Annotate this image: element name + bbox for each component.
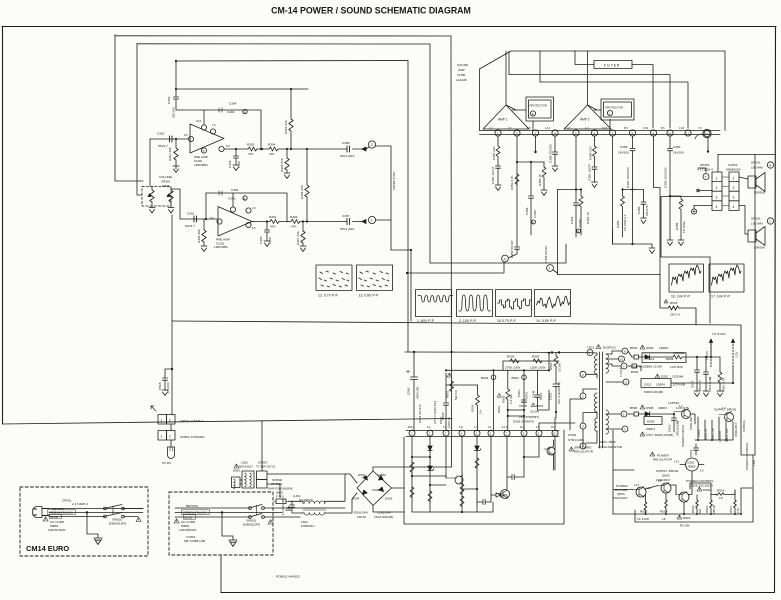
svg-text:14.3: 14.3 — [502, 426, 507, 429]
resistor R309 — [202, 219, 206, 246]
wire brown — [49, 508, 143, 510]
svg-text:1.2: 1.2 — [489, 126, 493, 130]
svg-text:4: 4 — [582, 425, 584, 429]
svg-text:25V100: 25V100 — [172, 107, 176, 118]
transistor Q509 — [547, 447, 555, 455]
capacitor C356 — [633, 190, 647, 219]
wire: loop right drop x741 — [740, 325, 742, 440]
svg-text:C: C — [769, 220, 772, 224]
svg-text:1201N71001: 1201N71001 — [48, 528, 66, 532]
svg-text:C51B: C51B — [519, 404, 527, 408]
svg-text:270P: 270P — [268, 237, 272, 244]
capacitor C357 on pin10 — [668, 136, 673, 240]
svg-text:3: 3 — [733, 196, 735, 200]
wire: bus x115 — [115, 35, 143, 182]
svg-text:B0143017: B0143017 — [239, 465, 253, 469]
svg-text:B503: B503 — [481, 376, 489, 380]
svg-text:120K 1/2W: 120K 1/2W — [530, 366, 545, 370]
svg-text:IC501: IC501 — [568, 433, 577, 437]
bottom enclosure power control — [635, 455, 753, 522]
grounds under C514 C515 R510 — [694, 391, 700, 397]
svg-text:CP501: CP501 — [62, 499, 72, 503]
svg-text:400V180: 400V180 — [416, 386, 420, 399]
svg-text:6.5: 6.5 — [252, 226, 256, 230]
svg-text:1.9: 1.9 — [212, 123, 216, 127]
resistor R523 — [475, 458, 479, 468]
resistor R517 — [734, 490, 737, 514]
wire bridge right — [392, 487, 405, 489]
svg-text:BROWN: BROWN — [186, 504, 198, 508]
wire green-yellow 2 — [175, 512, 282, 514]
volume dashed box — [142, 187, 171, 207]
svg-text:3: 3 — [582, 373, 584, 377]
waveform box 15 — [496, 290, 532, 317]
svg-text:R505: R505 — [502, 395, 506, 403]
svg-text:50RJ68: 50RJ68 — [754, 246, 765, 250]
svg-text:CM14 EURO: CM14 EURO — [26, 544, 69, 553]
svg-text:CM-14 POWER / SOUND SCHEMATIC: CM-14 POWER / SOUND SCHEMATIC DIAGRAM — [271, 6, 471, 16]
svg-text:POWER CONTROL: POWER CONTROL — [686, 479, 714, 483]
svg-text:2W 3.9: 2W 3.9 — [670, 313, 680, 317]
waveform box 2 — [457, 290, 493, 317]
svg-text:2: 2 — [429, 432, 431, 435]
svg-text:16V470(M): 16V470(M) — [708, 377, 712, 392]
svg-text:R514: R514 — [717, 489, 725, 493]
regulator IC502 — [686, 458, 699, 471]
svg-text:100V10: 100V10 — [447, 417, 451, 428]
capacitor C354 — [612, 230, 614, 244]
svg-text:8.5: 8.5 — [624, 126, 628, 130]
svg-text:C517 300V0.001(B): C517 300V0.001(B) — [646, 433, 673, 437]
wires into CP301 — [698, 168, 706, 172]
svg-text:R2 2W: R2 2W — [680, 524, 690, 528]
bottom rail inside — [412, 511, 493, 513]
transformer core — [600, 352, 603, 448]
svg-text:14.3: 14.3 — [634, 483, 640, 487]
node 4 — [547, 265, 554, 272]
svg-text:CS301: CS301 — [728, 163, 738, 167]
wire right bus y153 — [718, 154, 775, 156]
resistor R520 — [410, 462, 414, 472]
wire: pot wiper to lower amp input — [172, 189, 180, 219]
svg-text:8D64002A: 8D64002A — [726, 168, 742, 172]
sync arrow 1 — [710, 341, 712, 368]
svg-text:R503: R503 — [507, 355, 515, 359]
bead B503 — [493, 370, 495, 430]
svg-text:50RJ68: 50RJ68 — [754, 191, 765, 195]
capacitor C501 — [553, 373, 559, 412]
svg-text:R357 220: R357 220 — [492, 146, 496, 160]
IC350 pin bar — [480, 131, 721, 135]
svg-text:B502: B502 — [512, 376, 520, 380]
svg-text:14.3: 14.3 — [545, 126, 551, 130]
svg-text:SP302: SP302 — [751, 217, 761, 221]
svg-text:R307 22K: R307 22K — [296, 230, 300, 245]
page border bottom — [221, 592, 775, 594]
transistor Q504 — [636, 487, 646, 497]
capacitor C365 — [529, 162, 534, 235]
resistor R516 — [710, 490, 713, 514]
svg-text:50V1 (NP): 50V1 (NP) — [340, 227, 354, 231]
svg-text:SB-Y235B-U09: SB-Y235B-U09 — [184, 539, 205, 543]
wire x718 drop — [717, 155, 719, 173]
waveform box 16 — [669, 264, 704, 292]
svg-text:PROTECTOR: PROTECTOR — [530, 104, 548, 108]
svg-text:C365: C365 — [525, 207, 529, 215]
svg-text:TO SYNC: TO SYNC — [712, 332, 726, 336]
svg-text:2SD1151Y: 2SD1151Y — [734, 422, 738, 437]
svg-text:50V4.7: 50V4.7 — [158, 144, 168, 148]
svg-text:C-5-B-B: C-5-B-B — [619, 367, 623, 377]
wire: input drop from volume — [149, 139, 151, 186]
connector CP502 — [158, 415, 167, 425]
svg-text:C514: C514 — [691, 380, 695, 388]
wire: C309 down to feedback line — [176, 104, 183, 110]
svg-text:1K: 1K — [719, 496, 724, 500]
svg-text:L: L — [609, 112, 611, 116]
capacitor C305 — [265, 222, 270, 242]
wire green-yellow — [49, 512, 143, 514]
rail stubs — [509, 51, 540, 82]
ground VR301a — [149, 208, 155, 214]
wire speaker SP301 — [739, 177, 748, 179]
svg-text:C308: C308 — [342, 141, 350, 145]
svg-text:6.5: 6.5 — [527, 126, 531, 130]
svg-text:C301: C301 — [187, 212, 195, 216]
primary winding upper — [586, 353, 597, 375]
svg-text:F50.1: F50.1 — [408, 426, 415, 429]
svg-text:2: 2 — [582, 395, 584, 399]
inner rail 1 — [509, 75, 670, 129]
wire: left long AC wire — [3, 419, 453, 425]
svg-text:1: 1 — [716, 177, 718, 181]
svg-text:1C502: 1C502 — [687, 461, 695, 465]
svg-text:R351 2.7K: R351 2.7K — [510, 174, 514, 190]
svg-text:0.9: 0.9 — [536, 426, 540, 429]
svg-text:2Kv 0.0022(BH): 2Kv 0.0022(BH) — [557, 382, 561, 404]
svg-text:4: 4 — [716, 205, 718, 209]
svg-text:PROTECTOR: PROTECTOR — [606, 106, 624, 110]
svg-text:14.3: 14.3 — [674, 460, 680, 464]
svg-text:0.1: 0.1 — [427, 426, 431, 429]
svg-text:D508: D508 — [646, 406, 654, 410]
pin8 chain capacitor C358 — [630, 136, 635, 244]
capacitor C514 — [695, 357, 700, 391]
zener D512 — [475, 446, 479, 450]
svg-text:4.7K: 4.7K — [736, 507, 740, 514]
svg-text:R303: R303 — [290, 215, 298, 219]
svg-text:(27V 0.0022 AC): (27V 0.0022 AC) — [433, 401, 437, 424]
svg-text:2: 2 — [169, 435, 171, 439]
label L502 — [234, 464, 239, 468]
power top rail y352 — [405, 351, 586, 354]
svg-text:C359 16V1000: C359 16V1000 — [664, 167, 668, 188]
resistor R513 — [644, 502, 647, 514]
resistor R310 — [174, 139, 178, 166]
ground pin1 — [495, 185, 501, 191]
svg-text:9: 9 — [538, 432, 540, 435]
svg-text:1.2: 1.2 — [722, 406, 726, 410]
node 2 — [368, 141, 375, 148]
svg-text:SP301: SP301 — [751, 161, 761, 165]
svg-text:BLUE: BLUE — [185, 515, 193, 519]
wire bridge bottom — [373, 506, 404, 513]
svg-text:50V4.7: 50V4.7 — [185, 224, 195, 228]
resistor R518 — [660, 275, 696, 326]
wire brown 2 — [175, 507, 250, 509]
capacitor C516 — [672, 414, 677, 432]
zener D511 — [428, 466, 432, 470]
svg-text:R502: R502 — [532, 355, 540, 359]
svg-text:8.5: 8.5 — [661, 126, 665, 130]
svg-text:Q506 2SC1815Y: Q506 2SC1815Y — [690, 484, 713, 488]
bead B506 — [628, 413, 634, 415]
svg-text:1.3: 1.3 — [474, 426, 478, 429]
diode D513 — [491, 493, 501, 497]
svg-text:0.056: 0.056 — [533, 210, 537, 218]
svg-text:270P: 270P — [237, 161, 241, 168]
svg-text:15 2W: 15 2W — [558, 363, 562, 372]
resistor R515 — [696, 495, 699, 514]
svg-text:(M)G.: (M)G. — [233, 469, 241, 473]
wires power buffer area — [613, 430, 692, 514]
wire: top nested rail 1 — [115, 35, 451, 37]
wires supply drive — [690, 414, 733, 440]
svg-text:LM833BG: LM833BG — [194, 163, 209, 167]
below-bar enclosure — [404, 430, 564, 524]
bridge rectifier D501-D504 — [357, 471, 392, 506]
rail y189.5 — [558, 189, 582, 191]
svg-text:2SD1446: 2SD1446 — [689, 417, 693, 430]
svg-text:50V1 (NP): 50V1 (NP) — [340, 154, 354, 158]
wire blue 2 — [175, 516, 250, 518]
svg-text:2: 2 — [371, 143, 373, 147]
waveform box 1 — [416, 290, 452, 317]
wire y257 — [661, 256, 710, 258]
svg-text:C352 16V47: C352 16V47 — [588, 164, 592, 181]
svg-text:25V47b: 25V47b — [645, 205, 649, 216]
svg-text:R518: R518 — [670, 301, 678, 305]
svg-text:BLUE: BLUE — [51, 515, 59, 519]
mid rails to power section — [430, 244, 566, 263]
protector box 2 — [601, 99, 634, 120]
svg-text:1.9: 1.9 — [443, 426, 447, 429]
svg-text:R302: R302 — [247, 143, 255, 147]
waveform box 17 — [709, 264, 744, 292]
op-amp U1a IC301 — [190, 124, 224, 153]
resistor R353 — [542, 162, 546, 190]
svg-text:1.2: 1.2 — [585, 126, 589, 130]
svg-text:400: 400 — [698, 509, 702, 514]
wire y357 to sync column — [710, 341, 712, 357]
dashed box 2 (AC cord version) — [169, 492, 273, 555]
svg-text:R356: R356 — [616, 220, 620, 228]
svg-text:7.6: 7.6 — [698, 126, 702, 130]
svg-text:CP301: CP301 — [700, 163, 710, 167]
inner rail 2 — [540, 82, 688, 128]
svg-text:G: G — [244, 110, 246, 114]
resistor R504 — [476, 385, 480, 430]
wire filter right to pin12 — [632, 65, 653, 129]
op-amp U1b IC301 — [218, 207, 252, 237]
pin3 stub — [535, 136, 537, 151]
svg-text:2: 2 — [169, 419, 171, 423]
svg-text:0.7: 0.7 — [658, 479, 662, 483]
svg-text:5W 3.6: 5W 3.6 — [454, 390, 458, 400]
resistor R524 — [460, 484, 464, 494]
svg-text:8: 8 — [624, 350, 626, 354]
svg-text:C358: C358 — [620, 145, 628, 149]
svg-text:C364: C364 — [570, 216, 574, 224]
rail y370 — [446, 369, 549, 371]
svg-text:12. 0.7V P-P: 12. 0.7V P-P — [318, 294, 339, 298]
IC501 pin bar — [406, 431, 559, 437]
svg-text:POWER CONTROL: POWER CONTROL — [745, 442, 749, 470]
svg-text:C504 2Kv470: C504 2Kv470 — [418, 404, 422, 423]
svg-text:C356: C356 — [637, 206, 641, 214]
amplifier AMP1 — [483, 105, 529, 129]
box D509 — [644, 417, 662, 425]
svg-text:D502: D502 — [379, 473, 387, 477]
svg-text:1: 1 — [161, 419, 163, 423]
capacitor C521 — [477, 500, 491, 505]
svg-text:1201N61001: 1201N61001 — [179, 528, 197, 532]
svg-text:0.001: 0.001 — [227, 110, 235, 114]
svg-text:B: B — [244, 197, 246, 201]
svg-text:20C10: 20C10 — [357, 515, 366, 519]
ground symbol CM14 — [94, 538, 102, 545]
pin1 chain: resistor R357 — [496, 136, 500, 166]
wire right bus x755 — [754, 155, 756, 456]
svg-text:1CP384: 1CP384 — [672, 375, 683, 379]
wire x716 drop to loop — [709, 257, 711, 323]
svg-text:C351 16V47: C351 16V47 — [491, 167, 495, 184]
resistor R354 — [579, 190, 583, 236]
arrow mark near CP502 — [151, 406, 156, 411]
line filter LF501 — [292, 500, 303, 502]
capacitor C510 — [522, 400, 527, 402]
svg-text:14. 0.8V P-P: 14. 0.8V P-P — [536, 319, 557, 323]
pin2 chain wire — [516, 136, 518, 244]
svg-text:ESB9021PS: ESB9021PS — [109, 522, 126, 526]
diode D506 — [697, 487, 702, 491]
svg-text:1: 1 — [161, 435, 163, 439]
svg-text:FROM SYNC: FROM SYNC — [392, 171, 396, 190]
svg-text:500V0.001(B): 500V0.001(B) — [644, 390, 663, 394]
svg-text:AMP: AMP — [458, 68, 465, 72]
svg-text:C505: C505 — [407, 387, 411, 395]
interconnect rails below IC501 — [412, 449, 539, 502]
primary winding feedback — [586, 418, 597, 443]
wire blue — [49, 516, 105, 518]
svg-text:G: G — [504, 257, 507, 261]
capacitor C505 — [411, 352, 418, 430]
svg-text:R51b: R51b — [705, 505, 709, 513]
svg-text:R501: R501 — [497, 405, 501, 413]
wire bridge top to DC rail — [373, 467, 452, 471]
svg-text:R353 1K: R353 1K — [538, 173, 542, 186]
transistor Q508 — [501, 490, 510, 499]
snubber box C511 R509 — [642, 353, 686, 363]
resistor R303 — [291, 220, 300, 224]
potentiometer VR301a — [150, 187, 154, 208]
wire: feedback line upper opamp — [183, 110, 261, 149]
capacitor C306 — [234, 149, 239, 165]
arrow into node 2 — [362, 147, 366, 151]
svg-text:1CP-N20: 1CP-N20 — [670, 365, 683, 369]
resistor R356 — [621, 190, 633, 238]
inductor L502 body — [232, 477, 241, 488]
svg-text:7: 7 — [506, 432, 508, 435]
resistor R504b / C501 column — [554, 353, 558, 374]
resistor R510 — [718, 357, 722, 391]
svg-text:1A 250V(B): 1A 250V(B) — [281, 499, 285, 515]
svg-text:R309 39K: R309 39K — [197, 228, 201, 243]
svg-text:D507: D507 — [661, 375, 669, 379]
transistor Q506 — [679, 492, 689, 502]
capacitor C351 — [496, 166, 501, 185]
svg-text:C360 16V1000: C360 16V1000 — [626, 167, 630, 188]
wire: CP502 to power area — [261, 421, 263, 472]
wires LF501 to bridge — [325, 474, 357, 513]
svg-text:VR301: VR301 — [161, 180, 171, 184]
svg-text:POWER DRIVE: POWER DRIVE — [681, 425, 685, 447]
svg-text:8: 8 — [523, 432, 525, 435]
waveform box 14 — [535, 290, 571, 317]
svg-text:B: B — [769, 164, 771, 168]
diode D510 — [428, 446, 432, 450]
svg-text:16.1: 16.1 — [520, 426, 525, 429]
waveform box 12 — [316, 265, 352, 291]
wire: long loop top — [172, 321, 741, 325]
resistor R501 — [450, 381, 454, 391]
ground VR301b — [168, 208, 174, 214]
svg-text:13.8: 13.8 — [679, 126, 685, 130]
svg-text:C501: C501 — [549, 392, 553, 400]
svg-text:SOUND: SOUND — [457, 63, 469, 67]
svg-text:50V1: 50V1 — [525, 391, 529, 399]
svg-text:2Kv0.0022(B): 2Kv0.0022(B) — [374, 515, 393, 519]
resistor R522 — [428, 491, 432, 501]
node G — [502, 255, 509, 262]
transistor Q502 — [725, 413, 734, 422]
svg-text:E: E — [532, 112, 534, 116]
amplifier AMP2 — [564, 105, 611, 129]
IC501 pin circles — [409, 430, 415, 436]
resistor R301 — [270, 220, 279, 224]
svg-text:D50b: D50b — [703, 488, 711, 492]
svg-text:C511: C511 — [647, 357, 654, 361]
capacitor across line — [290, 503, 304, 513]
svg-text:C35F: C35F — [673, 145, 681, 149]
resistor R308 — [285, 149, 289, 173]
svg-text:ESB9021PS: ESB9021PS — [243, 523, 260, 527]
svg-text:D503: D503 — [385, 497, 393, 501]
svg-text:16V100: 16V100 — [673, 151, 684, 155]
diode D508 — [645, 412, 650, 416]
wires right control column — [690, 440, 755, 495]
svg-text:R504: R504 — [549, 362, 553, 370]
pin7 wire down — [612, 136, 614, 244]
svg-text:300P2: 300P2 — [646, 427, 655, 431]
svg-text:2-171825-3: 2-171825-3 — [72, 502, 88, 506]
svg-text:15 1/2W: 15 1/2W — [682, 221, 686, 233]
label POWER REGULATOR — [650, 452, 655, 456]
resistor R302 — [248, 147, 257, 151]
svg-text:R306 22K: R306 22K — [284, 119, 288, 134]
IC350 pin circles 1-12 — [495, 130, 501, 136]
svg-text:3: 3 — [624, 428, 626, 432]
